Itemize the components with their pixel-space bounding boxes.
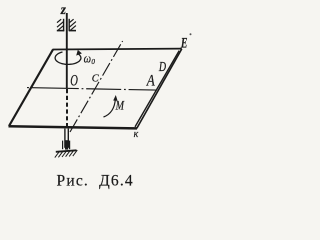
bottom bearing core block: [65, 140, 68, 149]
plate left edge: [9, 50, 53, 127]
svg-text:Рис. Д6.4: Рис. Д6.4: [57, 172, 134, 189]
svg-text:O: O: [70, 73, 78, 90]
svg-text:ω: ω: [84, 52, 92, 66]
top bearing left block: [57, 19, 65, 31]
caption Рис. Д6.4: [57, 172, 134, 189]
top bearing right block: [69, 19, 76, 31]
svg-text:к: к: [134, 129, 139, 140]
ground hatching: [55, 150, 78, 158]
plate right edge inner line (thickness): [135, 51, 179, 127]
point D label: [158, 59, 166, 74]
svg-text:C: C: [92, 74, 100, 85]
omega0 label: [84, 52, 96, 66]
axis z dashed segment inside plate: [66, 89, 68, 128]
horizontal center line through O and C (dash-dot): [27, 88, 157, 91]
shaft below plate right line: [67, 129, 69, 148]
svg-text:D: D: [158, 59, 166, 74]
point E label: [180, 36, 187, 52]
ground baseline under bottom bearing: [56, 150, 77, 152]
diagonal center line toward D (dash-dot): [70, 41, 123, 132]
point K label: [134, 129, 139, 140]
svg-text:E: E: [180, 36, 187, 52]
axis z upper solid segment: [66, 13, 68, 89]
point C label: [92, 74, 100, 85]
plate bottom edge: [9, 126, 138, 128]
plate top edge: [53, 48, 182, 51]
svg-text:z: z: [60, 3, 67, 18]
moment M label: [115, 97, 125, 112]
plate right edge outer line: [137, 49, 182, 129]
axis z label: [60, 3, 67, 18]
bottom bearing right stroke: [69, 141, 71, 150]
point A label: [146, 72, 155, 89]
omega0 rotation arc around axis: [55, 50, 82, 65]
moment M arc arrow: [104, 95, 118, 117]
svg-text:M: M: [115, 97, 125, 112]
bottom bearing left stroke: [62, 141, 64, 150]
svg-text:A: A: [146, 72, 155, 89]
point O label: [70, 73, 78, 90]
svg-text:0: 0: [91, 58, 95, 66]
shaft below plate left line: [64, 129, 66, 148]
stray dot speck top right: [190, 33, 192, 35]
